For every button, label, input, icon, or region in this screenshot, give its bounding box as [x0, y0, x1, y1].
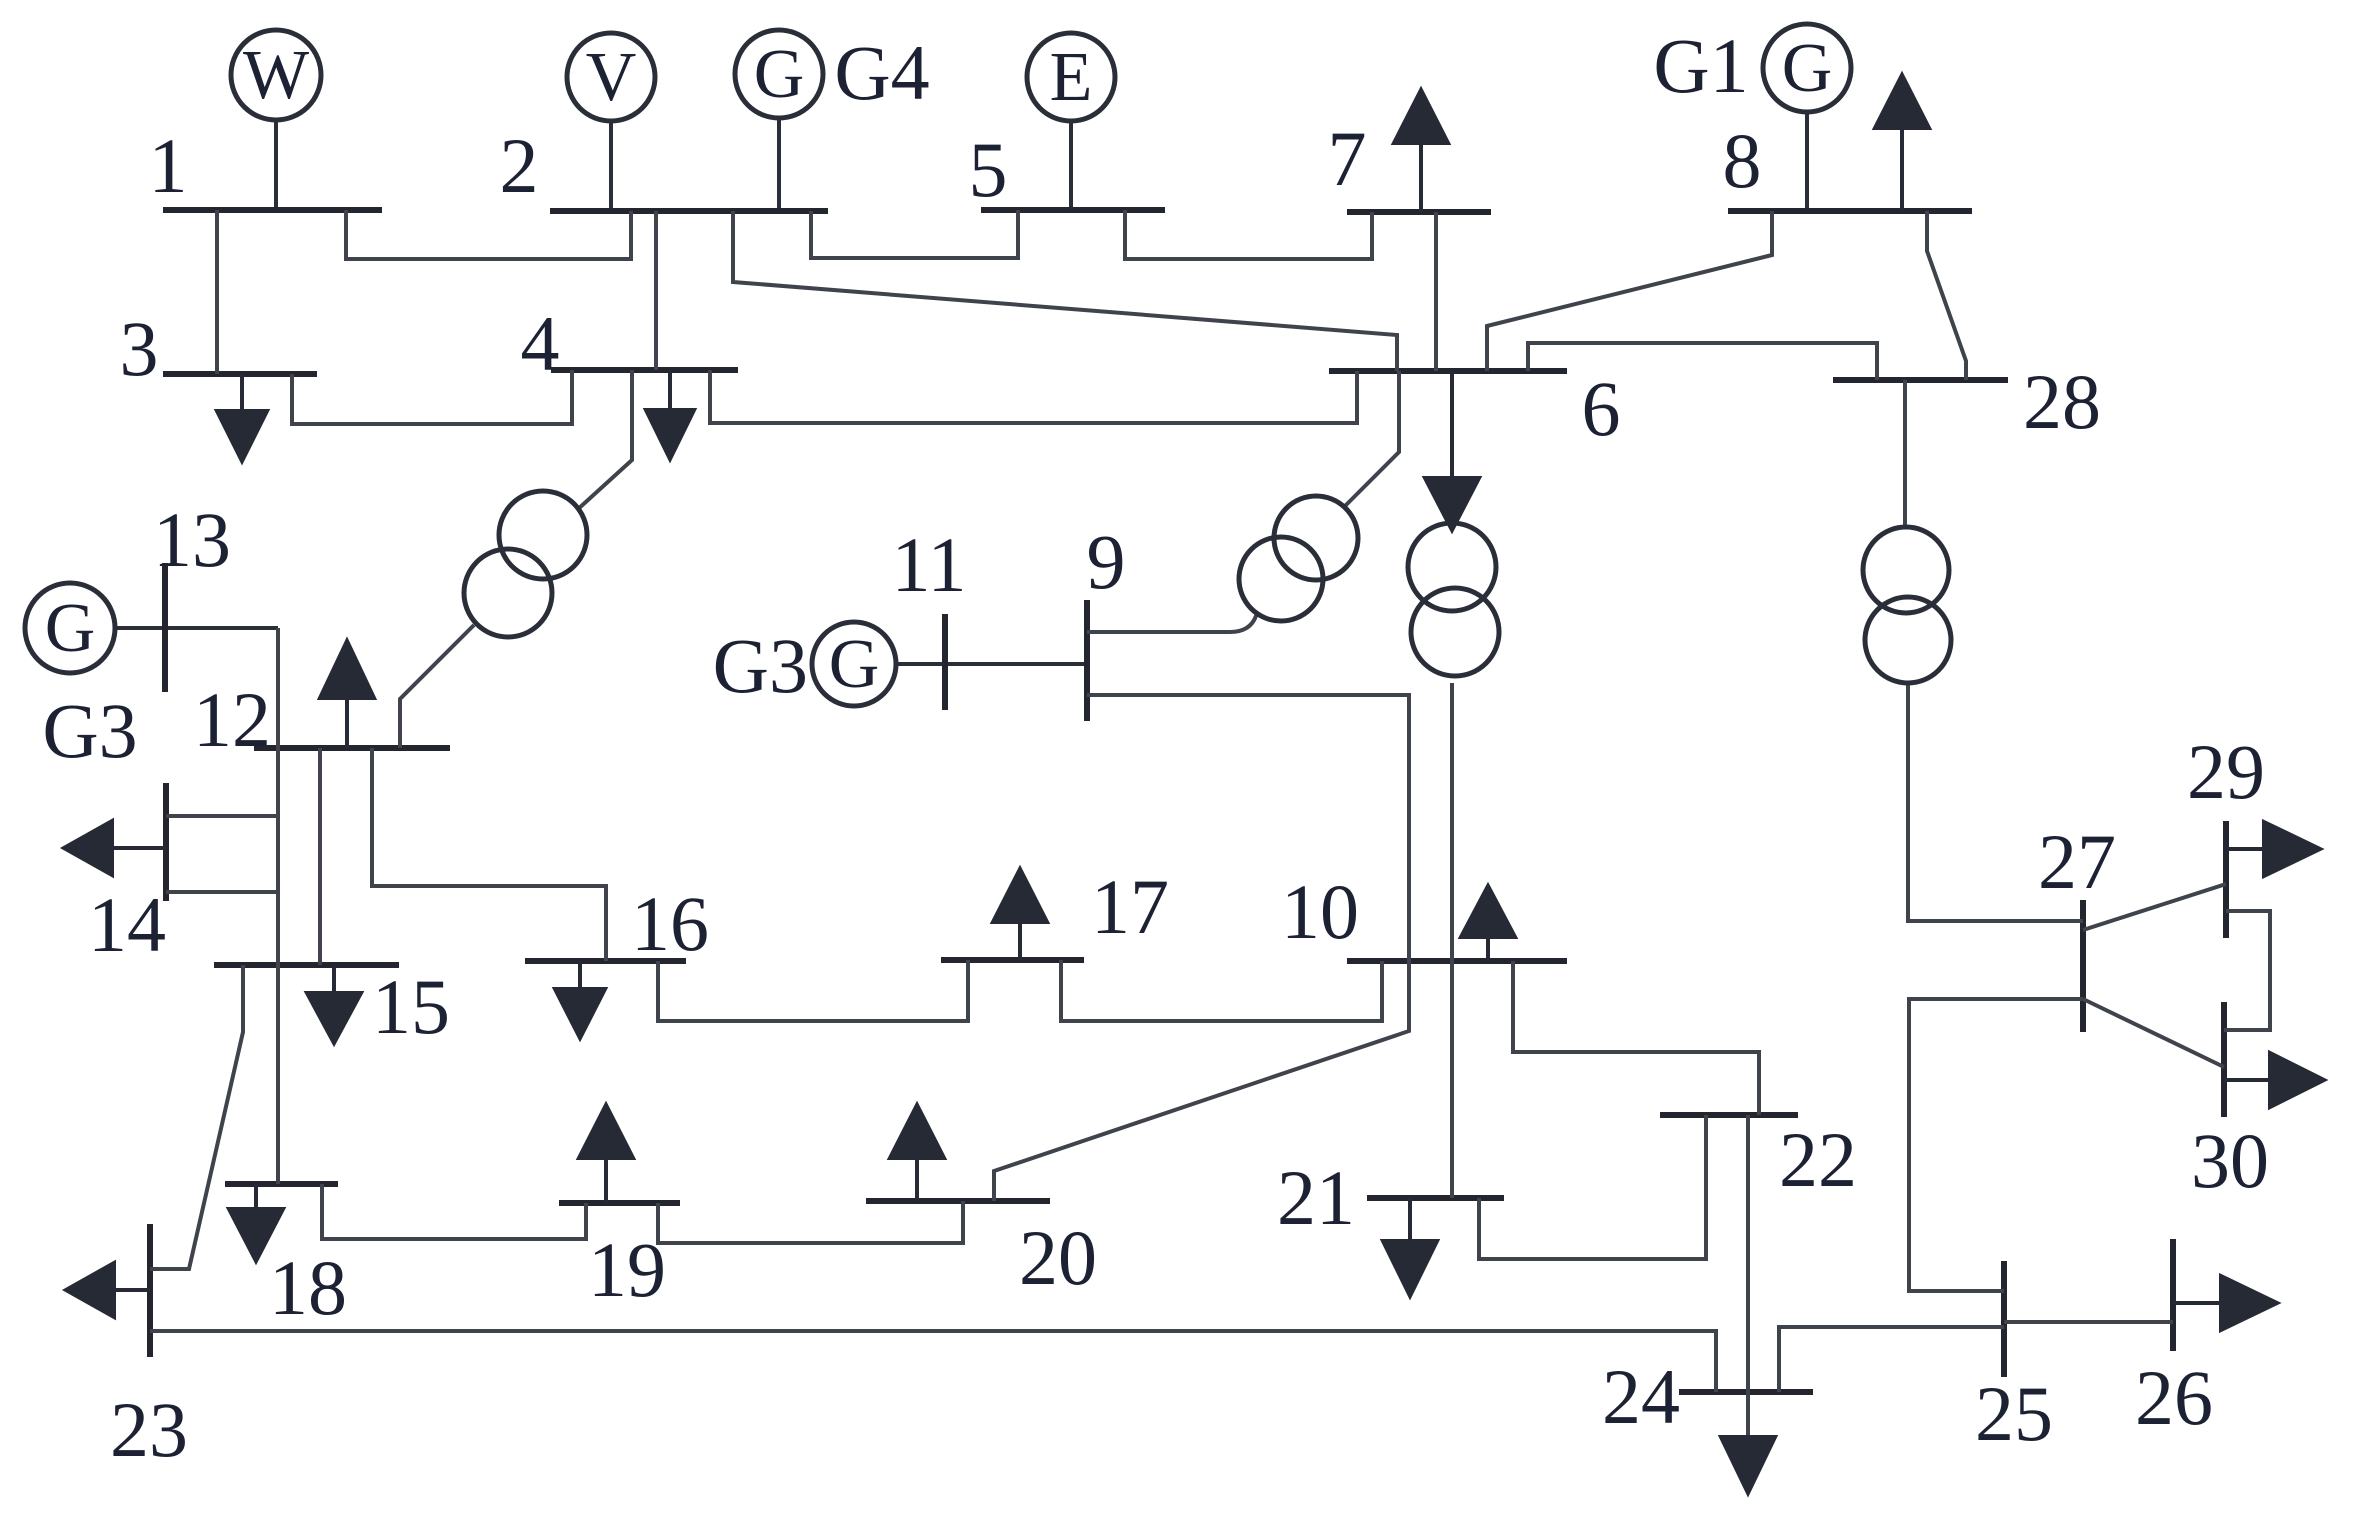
wire jog 12-14	[166, 814, 278, 818]
load arrow bus 12 (up)	[320, 641, 374, 748]
load arrow bus 3	[217, 374, 267, 461]
svg-text:19: 19	[588, 1226, 666, 1313]
svg-text:G3: G3	[42, 687, 137, 774]
bus 11	[942, 614, 948, 710]
svg-text:G: G	[754, 36, 805, 113]
wire line 9-10	[1087, 695, 1409, 961]
bus 21	[1367, 1195, 1504, 1201]
bus 20	[866, 1198, 1050, 1204]
transformer 6-10	[1408, 523, 1499, 676]
bus 23	[147, 1224, 153, 1357]
svg-text:10: 10	[1281, 868, 1359, 955]
transformer 6-9	[1239, 496, 1358, 621]
svg-text:18: 18	[269, 1244, 347, 1331]
bus 29	[2223, 821, 2229, 938]
wire line 12-16	[372, 748, 606, 961]
load arrow bus 16	[555, 961, 605, 1038]
bus 15	[214, 962, 399, 968]
wire line 29-30	[2224, 911, 2270, 1030]
wire line 25-26	[2004, 1320, 2173, 1324]
svg-text:G: G	[45, 590, 96, 667]
wire line 12-15	[318, 748, 322, 965]
wire line 27-29	[2083, 884, 2226, 930]
bus 28	[1833, 377, 2008, 383]
wire line 10-22	[1513, 961, 1759, 1115]
bus 4	[551, 367, 738, 373]
svg-text:9: 9	[1087, 518, 1126, 605]
bus 14	[163, 783, 169, 901]
generator E at bus 5	[1027, 33, 1115, 210]
load arrow bus 21	[1383, 1198, 1437, 1296]
load arrow bus 4	[646, 370, 694, 459]
wire jog 14-15	[166, 890, 278, 894]
bus 17	[941, 957, 1084, 963]
bus 6	[1329, 368, 1567, 374]
bus 30	[2221, 1002, 2227, 1117]
svg-text:G1: G1	[1653, 22, 1748, 109]
load arrow above transformer 6-10 (down)	[1425, 371, 1479, 530]
svg-text:21: 21	[1277, 1154, 1355, 1241]
transformer 28-27	[1863, 527, 1951, 683]
bus 26	[2170, 1239, 2176, 1351]
svg-text:G: G	[1782, 30, 1833, 107]
load arrow bus 24	[1721, 1437, 1775, 1493]
svg-text:26: 26	[2135, 1354, 2213, 1441]
svg-text:17: 17	[1091, 863, 1169, 950]
load arrow bus 18	[229, 1184, 283, 1261]
wire transformer 6-9 to bus 6	[1345, 371, 1399, 506]
bus 8	[1728, 208, 1972, 214]
svg-text:14: 14	[88, 881, 166, 968]
svg-text:29: 29	[2187, 728, 2265, 815]
load arrow bus 8 (up)	[1875, 75, 1929, 211]
generator G1 at bus 8	[1763, 24, 1851, 211]
wire line 17-10	[1061, 960, 1382, 1021]
bus 18	[225, 1181, 338, 1187]
generator V at bus 2	[567, 33, 655, 211]
bus 19	[559, 1200, 680, 1206]
load arrow bus 17 (up)	[993, 869, 1047, 960]
bus 27	[2080, 900, 2086, 1032]
svg-text:22: 22	[1779, 1116, 1857, 1203]
bus 10	[1347, 958, 1567, 964]
wire line 8-28	[1927, 211, 1966, 380]
wire line 15-23	[150, 965, 243, 1269]
svg-text:2: 2	[500, 122, 539, 209]
wire line 16-17	[658, 960, 968, 1021]
load arrow bus 15	[307, 965, 361, 1043]
wire bus4 to transformer 4-12	[577, 370, 632, 510]
load arrow bus 10 (up)	[1461, 886, 1515, 961]
svg-text:7: 7	[1328, 115, 1367, 202]
load arrow bus 26 (right)	[2173, 1276, 2277, 1330]
load arrow bus 7 (up)	[1394, 90, 1448, 212]
svg-text:23: 23	[110, 1386, 188, 1473]
wire line 25-27	[1909, 999, 2083, 1291]
wire line 1-3	[215, 210, 219, 374]
bus 5	[981, 207, 1165, 213]
wire line 24-25	[1779, 1327, 2004, 1392]
svg-text:G4: G4	[834, 29, 929, 116]
svg-text:G: G	[829, 626, 880, 703]
wire line 27-30	[2083, 999, 2224, 1067]
wire line 5-7	[1125, 210, 1372, 259]
wire bus9 to transformer 6-9	[1087, 612, 1258, 632]
wire line 23-24	[150, 1331, 1716, 1392]
bus 25	[2001, 1261, 2007, 1377]
svg-text:16: 16	[631, 880, 709, 967]
wire bus28 to transformer 28-27	[1903, 380, 1907, 527]
svg-text:1: 1	[149, 122, 188, 209]
svg-text:28: 28	[2023, 358, 2101, 445]
wire line 18-19	[322, 1184, 586, 1239]
wire line 2-6	[733, 211, 1397, 371]
svg-text:13: 13	[153, 496, 231, 583]
wire transformer to bus 27	[1908, 683, 2083, 921]
svg-text:E: E	[1050, 39, 1093, 116]
load arrow bus 30 (right)	[2224, 1053, 2324, 1107]
generator G3 at bus 11	[812, 622, 1087, 706]
bus 1	[163, 207, 382, 213]
wire line 7-6	[1434, 212, 1438, 371]
bus 22	[1660, 1112, 1798, 1118]
wire line 13-12-14-15-18 vertical	[276, 628, 280, 1184]
bus 2	[550, 208, 828, 214]
svg-text:11: 11	[891, 521, 966, 608]
svg-text:5: 5	[969, 126, 1008, 213]
wire line 2-4	[654, 211, 658, 370]
load arrow bus 20 (up)	[890, 1105, 944, 1201]
load arrow bus 29 (right)	[2226, 822, 2320, 876]
svg-text:G3: G3	[713, 622, 808, 709]
wire line 6-28	[1528, 343, 1877, 380]
wire line 1-2	[346, 210, 631, 259]
generator G3 at bus 13	[25, 583, 278, 673]
wire line 19-20	[658, 1201, 963, 1243]
svg-text:25: 25	[1975, 1370, 2053, 1457]
svg-text:3: 3	[120, 305, 159, 392]
svg-text:8: 8	[1723, 117, 1762, 204]
bus 12	[254, 745, 450, 751]
svg-text:V: V	[586, 39, 637, 116]
wire line 22-24	[1746, 1115, 1750, 1440]
bus 9	[1084, 600, 1090, 721]
transformer 4-12	[464, 491, 587, 637]
wire transformer 4-12 to bus 12	[400, 625, 474, 748]
wire line 10-21 via transformer	[1450, 683, 1454, 1198]
svg-text:6: 6	[1582, 365, 1621, 452]
bus 3	[163, 371, 317, 377]
load arrow bus 19 (up)	[579, 1105, 633, 1203]
wire line 21-22	[1479, 1115, 1706, 1259]
svg-text:W: W	[243, 37, 309, 114]
wire line 2-5	[811, 210, 1018, 258]
bus 13	[162, 563, 168, 692]
wire line 3-4	[292, 370, 572, 424]
wire line 4-6	[710, 370, 1357, 423]
bus 7	[1347, 209, 1491, 215]
wire line 6-8	[1487, 211, 1772, 371]
svg-text:27: 27	[2038, 818, 2116, 905]
load arrow bus 14 (left)	[64, 821, 166, 875]
bus 24	[1679, 1389, 1813, 1395]
svg-text:20: 20	[1019, 1214, 1097, 1301]
load arrow bus 23 (left)	[66, 1263, 150, 1317]
svg-text:30: 30	[2191, 1117, 2269, 1204]
wire line 10-20	[994, 961, 1409, 1201]
svg-text:4: 4	[521, 300, 560, 387]
bus 16	[525, 958, 686, 964]
generator W at bus 1	[231, 30, 321, 210]
wire bus6 to transformer 6-10	[1450, 371, 1454, 480]
svg-text:12: 12	[193, 676, 271, 763]
svg-text:24: 24	[1602, 1353, 1680, 1440]
svg-text:15: 15	[372, 963, 450, 1050]
generator G4 at bus 2	[735, 30, 823, 211]
